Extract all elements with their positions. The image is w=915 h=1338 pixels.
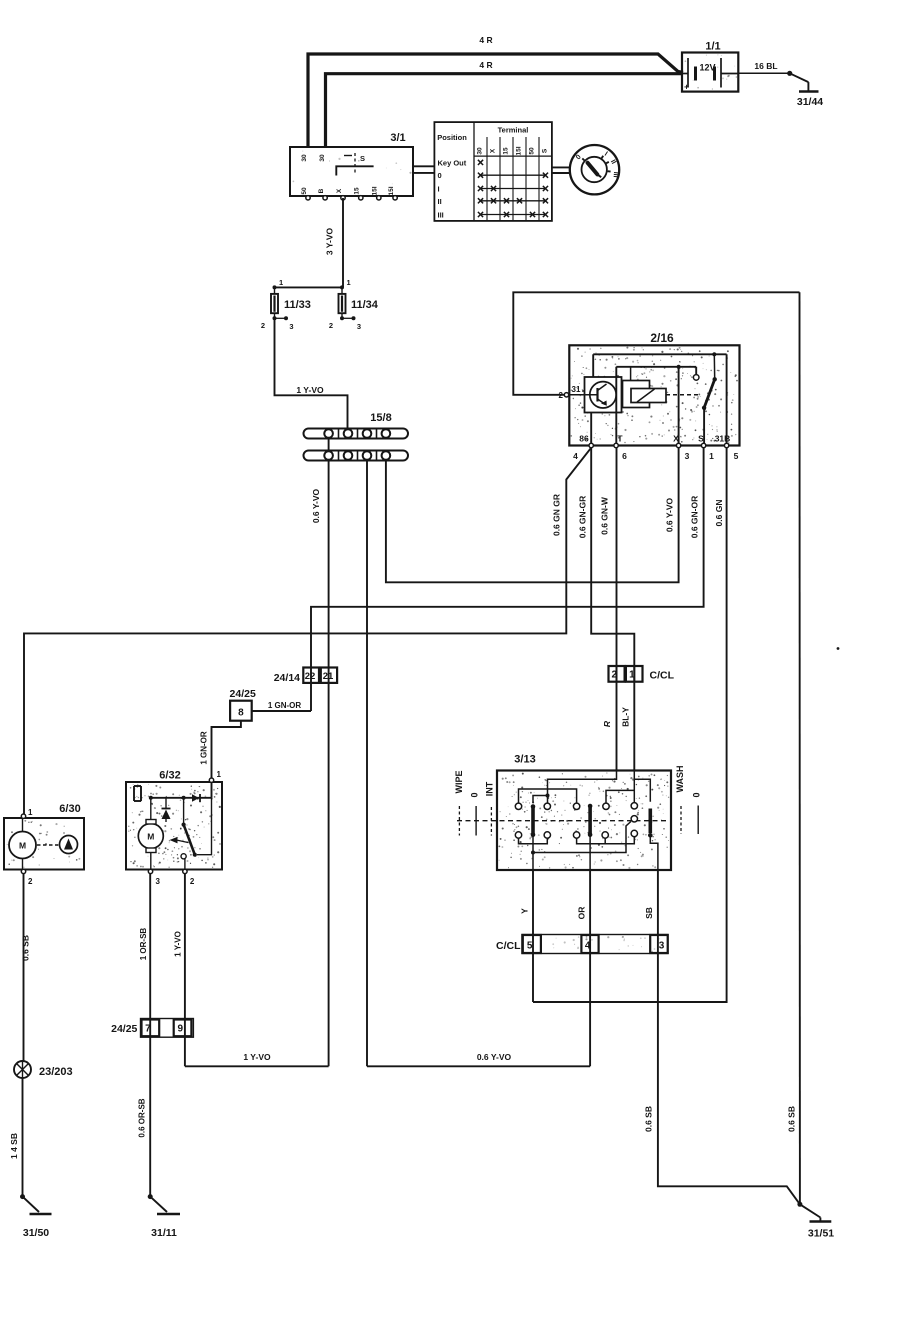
wiper switch top row contacts xyxy=(515,803,637,810)
wire 3 Y-VO (ignition X to fuses) xyxy=(325,198,344,287)
svg-text:1: 1 xyxy=(347,278,351,287)
wiper motor diode (shunt) xyxy=(162,798,171,822)
relay pin 86 internal lead xyxy=(590,413,592,446)
svg-text:11/34: 11/34 xyxy=(351,299,379,311)
wiper switch bridge bar (WASH) xyxy=(648,809,653,838)
svg-text:T: T xyxy=(617,434,623,444)
svg-text:0.6 OR-SB: 0.6 OR-SB xyxy=(138,1098,147,1137)
terminal label 30 (left) xyxy=(301,154,308,162)
svg-text:BL-Y: BL-Y xyxy=(621,707,631,727)
svg-text:2: 2 xyxy=(559,391,564,400)
ignition pin B xyxy=(318,188,327,200)
wiper motor park switch blade xyxy=(184,798,212,857)
svg-text:0: 0 xyxy=(692,792,702,797)
svg-text:6/32: 6/32 xyxy=(159,770,180,782)
ground 31/44 xyxy=(787,71,823,108)
wiper motor internal feed wire xyxy=(149,782,212,800)
svg-text:0.6 SB: 0.6 SB xyxy=(21,935,31,961)
svg-text:86: 86 xyxy=(579,434,589,444)
svg-text:0.6 Y-VO: 0.6 Y-VO xyxy=(311,488,321,523)
relay coil K xyxy=(623,367,667,408)
svg-text:3: 3 xyxy=(289,322,293,331)
svg-text:+: + xyxy=(684,82,689,92)
relay terminal name X xyxy=(673,434,679,444)
terminal label 30 (right) xyxy=(319,154,326,162)
svg-text:2: 2 xyxy=(261,321,265,330)
wire 0.6 Y-VO (15/8 bar A drop through 24/14 pin 21) xyxy=(311,461,329,1067)
ground 31/50 xyxy=(20,1194,52,1239)
svg-text:1: 1 xyxy=(279,278,283,287)
svg-text:C/CL: C/CL xyxy=(496,940,521,952)
wiper switch internal OR output xyxy=(589,835,591,870)
wire 0.6 SB (washer pump to splice) xyxy=(21,874,31,1061)
battery 1/1 xyxy=(682,41,738,92)
svg-text:X: X xyxy=(336,188,343,193)
svg-text:I: I xyxy=(438,185,440,194)
svg-text:0.6 GN-OR: 0.6 GN-OR xyxy=(690,496,700,539)
wire 1 GN-OR (24/25 pin 8 to wiper motor pin 1) xyxy=(200,721,241,781)
ignition pin X xyxy=(336,188,345,200)
svg-text:4: 4 xyxy=(573,451,578,461)
wire 15/8 bar A to bar B xyxy=(328,439,330,451)
svg-text:1: 1 xyxy=(28,808,33,817)
wiper switch internal SB link xyxy=(650,835,658,870)
svg-text:III: III xyxy=(438,211,444,220)
svg-text:S: S xyxy=(541,148,548,153)
wiper motor pin 3 xyxy=(148,869,160,886)
svg-text:0.6 Y-VO: 0.6 Y-VO xyxy=(665,497,675,532)
svg-text:4 R: 4 R xyxy=(479,60,492,70)
svg-text:1 OR-SB: 1 OR-SB xyxy=(139,928,148,961)
wire 0.6 GN (relay 31B to C/CL 5) xyxy=(533,448,727,1002)
wiper switch bridge bar (INT) xyxy=(531,804,536,837)
wiper motor housing tab xyxy=(134,786,141,801)
svg-text:Terminal: Terminal xyxy=(498,126,529,135)
svg-text:30: 30 xyxy=(319,154,326,162)
wiper switch internal Y collector xyxy=(531,822,631,871)
svg-text:3: 3 xyxy=(156,877,161,886)
svg-text:0.6 GN-GR: 0.6 GN-GR xyxy=(578,496,588,539)
ignition pin 15 xyxy=(354,187,363,200)
connector 24/25 pins 7 and 9 xyxy=(111,1019,193,1038)
relay electronic unit (transistor) U xyxy=(569,377,622,413)
wire 0.6 GN GR (relay 86 to washer pump feed) xyxy=(24,448,591,815)
wiper switch bottom row contacts xyxy=(515,816,637,839)
svg-text:11/33: 11/33 xyxy=(284,299,311,311)
svg-text:M: M xyxy=(19,841,26,851)
svg-text:16 BL: 16 BL xyxy=(754,61,777,71)
relay pin number 4 xyxy=(573,451,578,461)
svg-text:0: 0 xyxy=(470,792,480,797)
relay pin number 1 xyxy=(709,451,714,461)
svg-text:0.6 GN-W: 0.6 GN-W xyxy=(600,496,610,535)
svg-text:C/CL: C/CL xyxy=(650,670,675,682)
svg-text:M: M xyxy=(147,832,154,842)
svg-text:31/44: 31/44 xyxy=(797,96,823,108)
wiper switch internal lower link (right) xyxy=(577,837,635,844)
relay terminal name T xyxy=(617,434,623,444)
svg-text:0.6 SB: 0.6 SB xyxy=(787,1106,797,1132)
svg-text:5: 5 xyxy=(734,451,739,461)
svg-text:0: 0 xyxy=(438,171,442,180)
svg-text:1 Y-VO: 1 Y-VO xyxy=(296,385,324,395)
svg-text:S: S xyxy=(360,154,365,163)
svg-text:1: 1 xyxy=(709,451,714,461)
wire BL-Y (C/CL 1 to wiper switch) xyxy=(621,666,635,771)
svg-text:22: 22 xyxy=(305,671,316,682)
svg-text:3/1: 3/1 xyxy=(390,132,405,144)
svg-text:1 Y-VO: 1 Y-VO xyxy=(243,1052,271,1062)
wiper motor park contact xyxy=(181,854,186,870)
svg-text:1 GN-OR: 1 GN-OR xyxy=(268,701,302,710)
svg-text:X: X xyxy=(490,148,497,153)
svg-text:3: 3 xyxy=(685,451,690,461)
wire relay pin 31 to top loop xyxy=(513,292,799,395)
ignition pin 15I (1) xyxy=(372,186,381,200)
svg-text:1 Y-VO: 1 Y-VO xyxy=(174,931,183,957)
wire 0.6 SB right trunk (top loop to ground 31/51) xyxy=(787,292,800,1204)
connector 24/25 pin 8 xyxy=(230,688,256,721)
svg-text:9: 9 xyxy=(178,1024,184,1035)
svg-text:8: 8 xyxy=(238,708,244,719)
connector 24/14 pins 22 and 21 xyxy=(274,668,337,685)
fuse 11/34 xyxy=(329,278,379,331)
svg-text:0.6 GN GR: 0.6 GN GR xyxy=(552,494,562,536)
wire 0.6 GN-GR (relay 86 to C/CL 1) xyxy=(578,448,635,682)
wire 4R battery feed 2 (thick) xyxy=(326,74,684,147)
washer pump motor 6/30 xyxy=(4,803,84,870)
relay coil-to-armature dashed link xyxy=(666,394,701,396)
svg-text:Y: Y xyxy=(520,908,530,914)
wire 0.6 Y-VO (C/CL 4 to 15/8 bar B) xyxy=(367,1052,590,1066)
relay pin number 3 xyxy=(685,451,690,461)
wire 16 BL xyxy=(738,61,789,73)
washer pump M lead xyxy=(22,818,24,870)
ignition pin 50 xyxy=(301,187,310,200)
svg-text:24/25: 24/25 xyxy=(230,688,256,700)
wire 0.6 GN-W (relay T to C/CL 2) xyxy=(600,448,617,682)
svg-text:5: 5 xyxy=(527,941,533,952)
wire fuse feed junction xyxy=(275,286,344,288)
ground 31/51 xyxy=(797,1202,834,1240)
svg-text:OR: OR xyxy=(577,907,587,920)
svg-text:31B: 31B xyxy=(715,434,731,444)
svg-text:1 4 SB: 1 4 SB xyxy=(9,1133,19,1159)
wiper switch internal R feed xyxy=(533,771,617,804)
svg-text:Position: Position xyxy=(437,133,467,142)
svg-text:SB: SB xyxy=(644,907,654,919)
wiper switch internal link (contact 6 to wash column) xyxy=(606,790,634,803)
svg-text:6: 6 xyxy=(622,451,627,461)
svg-text:3 Y-VO: 3 Y-VO xyxy=(325,227,335,255)
wire 0.6 OR-SB (24/25 pin 7 to ground 31/11) xyxy=(138,1037,151,1196)
relay pin number 5 xyxy=(734,451,739,461)
svg-text:15: 15 xyxy=(503,147,510,155)
connector 15/8 bus bar B xyxy=(304,451,409,461)
svg-text:2: 2 xyxy=(190,877,195,886)
relay terminal name S xyxy=(698,434,704,444)
wiper motor mechanical link arrow xyxy=(170,837,189,844)
wire 0.6 GN-OR (relay S to 24/14 pin 22) xyxy=(311,448,704,711)
svg-text:3: 3 xyxy=(357,322,361,331)
wiper switch position 0 (left) xyxy=(470,792,480,835)
intermittent wiper relay 2/16 box xyxy=(569,331,739,446)
wiper switch internal lower link (contacts) xyxy=(519,838,548,844)
wiper switch position WIPE xyxy=(454,770,464,835)
label 4 R (lower wire) xyxy=(479,60,492,70)
svg-text:B: B xyxy=(318,188,325,193)
svg-text:3/13: 3/13 xyxy=(514,754,535,766)
svg-text:15I: 15I xyxy=(516,146,523,155)
wire 0.6 Y-VO (relay X to 15/8) xyxy=(386,448,679,583)
svg-text:1/1: 1/1 xyxy=(705,41,720,53)
svg-text:2/16: 2/16 xyxy=(650,331,674,345)
washer pump pin 2 xyxy=(21,869,33,886)
wiper motor park switch feed xyxy=(182,798,186,827)
ignition key cylinder xyxy=(570,145,619,194)
svg-text:3: 3 xyxy=(659,941,665,952)
svg-text:50: 50 xyxy=(301,187,308,195)
fuse 11/33 xyxy=(261,278,311,331)
wire 1 Y-VO (lower link to 24/25 pin 9) xyxy=(185,1052,329,1066)
link table to key cylinder (double line) xyxy=(552,167,570,173)
svg-text:50: 50 xyxy=(529,147,536,155)
wire 15/8 bar B drop (long) xyxy=(366,461,368,1067)
svg-text:31/11: 31/11 xyxy=(151,1227,177,1239)
wiper switch position 0 (right) xyxy=(692,792,702,834)
svg-text:31: 31 xyxy=(572,385,581,394)
svg-text:15/8: 15/8 xyxy=(370,412,391,424)
wiper motor pin 2 xyxy=(183,869,195,886)
svg-text:0.6 SB: 0.6 SB xyxy=(644,1106,654,1132)
svg-text:15I: 15I xyxy=(372,186,379,195)
label 4 R (upper wire) xyxy=(479,35,492,45)
relay terminal name 31B xyxy=(715,434,731,444)
relay pin number 6 xyxy=(622,451,627,461)
wire 1 Y-VO (fuse 11/33 to connector 15/8) xyxy=(275,318,348,428)
svg-text:2: 2 xyxy=(28,877,33,886)
wiper switch position INT xyxy=(485,781,495,835)
svg-text:1: 1 xyxy=(217,770,222,779)
ignition pin 15I (2) xyxy=(388,186,397,200)
wire OR (switch to C/CL 4) xyxy=(577,870,591,1066)
svg-text:31/51: 31/51 xyxy=(808,1228,834,1240)
svg-text:23/203: 23/203 xyxy=(39,1066,73,1078)
svg-text:0.6 Y-VO: 0.6 Y-VO xyxy=(477,1052,512,1062)
relay terminal name 86 xyxy=(579,434,589,444)
washer pump pin 1 xyxy=(21,808,33,818)
svg-text:15: 15 xyxy=(354,187,361,195)
svg-text:INT: INT xyxy=(485,781,495,796)
ignition internal S contact xyxy=(336,153,373,176)
wire 1.4 SB (splice to ground 31/50) xyxy=(9,1078,23,1197)
wiper motor diode (series) xyxy=(192,794,200,802)
svg-text:WASH: WASH xyxy=(675,766,685,793)
ignition switch 3/1 box xyxy=(290,132,413,196)
wiper switch internal BL-Y feed xyxy=(634,771,650,803)
connector 15/8 bus bar A xyxy=(304,429,409,439)
wire 1 GN-OR (24/14 pin 22 to 24/25 pin 8) xyxy=(252,701,311,711)
svg-text:S: S xyxy=(698,434,704,444)
splice 23/203 xyxy=(14,1061,73,1078)
wire R (C/CL 2 to wiper switch) xyxy=(602,666,617,771)
relay internal wire (coil/contact feed) xyxy=(616,365,699,446)
wiper switch internal link (contacts 1-4) xyxy=(519,789,577,803)
wire SB (switch to C/CL 3) xyxy=(644,870,658,954)
svg-text:0.6 GN: 0.6 GN xyxy=(714,500,724,527)
svg-text:24/14: 24/14 xyxy=(274,672,300,684)
scan speck xyxy=(837,647,840,650)
svg-text:Key Out: Key Out xyxy=(438,158,467,167)
wiper motor armature M xyxy=(138,798,163,870)
svg-text:R: R xyxy=(602,720,612,727)
svg-text:4 R: 4 R xyxy=(479,35,492,45)
svg-text:24/25: 24/25 xyxy=(111,1023,137,1035)
svg-text:III: III xyxy=(611,171,619,178)
svg-text:6/30: 6/30 xyxy=(59,803,80,815)
wiper motor pin 1 xyxy=(209,770,221,782)
relay pin 31 terminal xyxy=(559,385,581,400)
wiper switch 3/13 box xyxy=(497,754,671,871)
relay internal bus wire (top) xyxy=(593,352,726,445)
wire 1 Y-VO (wiper motor pin 2 down) xyxy=(174,874,185,1067)
wiper switch bridge bar (WIPE) xyxy=(588,804,593,837)
svg-text:X: X xyxy=(673,434,679,444)
relay switch armature xyxy=(702,354,717,445)
key position table rows and contacts xyxy=(438,158,549,219)
svg-text:II: II xyxy=(438,197,442,206)
connector C/CL pins 5 4 3 xyxy=(496,935,668,954)
relay bottom pin terminals xyxy=(589,443,729,447)
svg-text:30: 30 xyxy=(301,154,308,162)
svg-text:1 GN-OR: 1 GN-OR xyxy=(200,731,209,765)
wire Y (switch to C/CL 5) xyxy=(520,870,534,1002)
wiper switch mechanical line (dashed) xyxy=(457,820,668,822)
connector C/CL pins 2 and 1 xyxy=(609,666,675,682)
svg-text:7: 7 xyxy=(145,1024,151,1035)
svg-text:15I: 15I xyxy=(388,186,395,195)
svg-text:30: 30 xyxy=(477,147,484,155)
wiper switch position WASH xyxy=(675,766,685,835)
svg-text:2: 2 xyxy=(329,321,333,330)
svg-text:WIPE: WIPE xyxy=(454,770,464,793)
key position table header xyxy=(434,122,552,221)
svg-text:4: 4 xyxy=(585,941,591,952)
link ignition to table (double line) xyxy=(413,166,434,173)
wire 4R battery feed 1 (thick) xyxy=(308,54,683,147)
connector 15/8 label xyxy=(370,412,391,424)
ground 31/11 xyxy=(148,1194,180,1239)
wire 0.6 SB (C/CL 3 to ground) xyxy=(644,954,800,1205)
wire 1 OR-SB (wiper motor pin 3 down) xyxy=(139,874,150,1038)
svg-text:31/50: 31/50 xyxy=(23,1227,49,1239)
wiper motor 6/32 box xyxy=(126,770,222,870)
